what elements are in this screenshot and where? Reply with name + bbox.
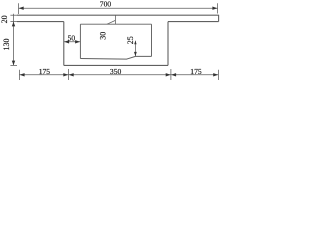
svg-text:30: 30: [99, 32, 108, 40]
svg-text:50: 50: [68, 34, 76, 43]
svg-text:175: 175: [190, 67, 202, 76]
svg-text:350: 350: [110, 67, 122, 76]
svg-text:25: 25: [126, 36, 135, 44]
svg-text:175: 175: [39, 67, 51, 76]
svg-text:20: 20: [0, 15, 9, 23]
svg-text:700: 700: [100, 0, 112, 9]
svg-text:130: 130: [2, 39, 11, 51]
